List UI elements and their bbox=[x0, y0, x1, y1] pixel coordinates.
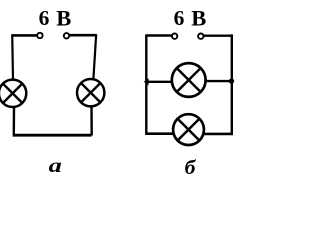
wire top-right rail (circuit b) bbox=[203, 35, 232, 37]
terminal T1 (circuit a) bbox=[37, 33, 42, 38]
wire lower branch left (circuit b) bbox=[145, 132, 174, 135]
svg-text:б: б bbox=[185, 156, 197, 179]
wire top-left rail (circuit a) bbox=[12, 34, 37, 37]
svg-text:В: В bbox=[191, 5, 206, 30]
wire upper branch left (circuit b) bbox=[146, 81, 173, 83]
wire upper branch right (circuit b) bbox=[205, 80, 232, 82]
label 6 V (circuit b) bbox=[174, 5, 207, 30]
lamp L1 (circuit a) bbox=[0, 80, 26, 107]
terminal T4 (circuit b) bbox=[198, 34, 203, 39]
label a (circuit a) bbox=[49, 155, 63, 177]
svg-text:В: В bbox=[56, 5, 71, 30]
svg-text:а: а bbox=[49, 155, 63, 177]
wire left vertical (circuit a) bbox=[11, 34, 14, 79]
lamp L4 (circuit b) bbox=[173, 114, 204, 145]
wire bottom rail (circuit a) bbox=[13, 134, 92, 137]
wire lower branch right (circuit b) bbox=[203, 133, 234, 136]
svg-text:6: 6 bbox=[174, 6, 185, 30]
lamp L3 (circuit b) bbox=[172, 63, 206, 97]
wire right vertical (circuit b) bbox=[231, 34, 233, 134]
wire left vertical (circuit b) bbox=[145, 34, 147, 133]
wire bottom-left vertical (circuit a) bbox=[13, 106, 16, 135]
wire top-left rail (circuit b) bbox=[146, 34, 172, 36]
label 6 V (circuit a) bbox=[39, 5, 72, 30]
lamp L2 (circuit a) bbox=[77, 79, 104, 106]
wire top-right rail (circuit a) bbox=[69, 34, 96, 37]
label b (circuit b) bbox=[185, 156, 197, 179]
terminal T2 (circuit a) bbox=[64, 33, 69, 38]
wire right vertical (circuit a) bbox=[93, 34, 96, 79]
junction J1 (circuit b) bbox=[144, 78, 149, 85]
wire bottom-right vertical (circuit a) bbox=[90, 106, 93, 136]
junction J2 (circuit b) bbox=[229, 78, 234, 83]
terminal T3 (circuit b) bbox=[172, 34, 177, 39]
svg-text:6: 6 bbox=[39, 6, 50, 30]
